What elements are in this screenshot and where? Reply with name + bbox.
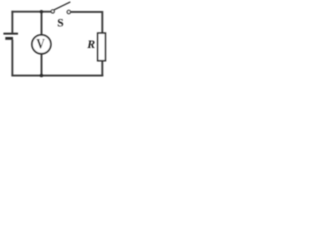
- wire right lower (resistor box down to bottom wire): [101, 61, 103, 75]
- voltmeter V circle: [32, 35, 51, 54]
- wire voltmeter branch upper: [41, 12, 43, 35]
- battery short plate (negative): [5, 37, 13, 40]
- switch S lever (open): [54, 2, 70, 10]
- wire top-left segment (battery top to switch left terminal): [11, 11, 50, 13]
- node: junction dot top (voltmeter tap on top wire): [40, 10, 43, 13]
- wire voltmeter branch lower: [41, 54, 43, 76]
- wire bottom: [11, 75, 103, 77]
- switch S right terminal circle: [67, 10, 70, 13]
- svg-text:R: R: [86, 37, 95, 51]
- resistor R box: [98, 33, 106, 61]
- wire left lower (battery short plate down to bottom wire): [11, 40, 13, 76]
- circuit schematic: battery, switch S, voltmeter V, resistor R: [0, 0, 109, 79]
- wire left upper (top wire down to battery long plate): [11, 11, 13, 33]
- wire top-right segment (switch right terminal to right corner): [71, 11, 103, 13]
- node: junction dot bottom (voltmeter tap on bottom wire): [40, 74, 44, 78]
- wire right upper (top corner down to resistor box): [101, 11, 103, 33]
- battery long plate (positive): [3, 33, 18, 35]
- svg-text:V: V: [36, 37, 45, 53]
- switch S left terminal circle: [51, 10, 54, 13]
- svg-text:S: S: [57, 18, 63, 30]
